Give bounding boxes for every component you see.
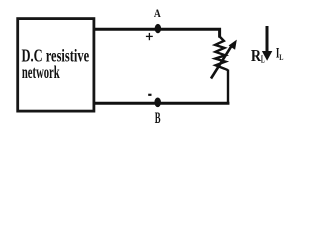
svg-text:A: A	[154, 6, 161, 20]
svg-text:network: network	[22, 62, 60, 82]
svg-text:B: B	[155, 110, 161, 127]
svg-text:L: L	[279, 52, 283, 62]
svg-text:L: L	[261, 54, 265, 65]
